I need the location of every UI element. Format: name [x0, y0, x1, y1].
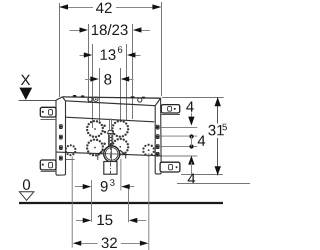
boss line under small ring [66, 159, 75, 161]
drain circle [98, 144, 126, 165]
dimension 4 dots middle right [189, 134, 205, 148]
bracket left upper [40, 107, 56, 119]
bracket right upper [161, 105, 180, 115]
level marker X [19, 75, 56, 101]
right chain: top line [162, 97, 224, 99]
fixing hole ring lower-left [86, 138, 104, 156]
dimension 9 sup 3 [75, 179, 134, 191]
fixing hole ring lower-mid [111, 138, 129, 156]
rail top face screws [73, 95, 145, 102]
left column holes [59, 125, 62, 160]
right column tick lines [162, 128, 198, 156]
frame rail top edges [56, 97, 161, 122]
bracket left lower [40, 160, 56, 172]
dimension 42 [59, 2, 162, 97]
dimension 32 [73, 238, 149, 249]
floor line [19, 202, 223, 204]
bottom extension lines [72, 153, 149, 250]
left column [56, 97, 66, 175]
drain bolt [107, 119, 113, 147]
dimension 4 lower right [177, 156, 250, 184]
dimension 4 top right [186, 102, 194, 126]
panel bottom edge [56, 152, 161, 156]
small fixing ring left of panel [65, 144, 77, 156]
dimension 18/23 [70, 24, 151, 119]
level marker 0 [19, 179, 33, 200]
dimension 8 [85, 68, 134, 122]
fixing hole ring upper-left [86, 120, 104, 138]
right column holes [156, 125, 159, 156]
fixing hole ring right [142, 144, 155, 157]
dimension 15 [76, 215, 146, 225]
bracket right lower [160, 162, 180, 172]
drain pipe [104, 146, 117, 176]
dimension 13 sup 6 [80, 44, 141, 128]
dimension 31 sup 5 [208, 97, 227, 175]
right column [155, 98, 161, 174]
stray plate holes [103, 125, 106, 152]
fixing hole ring upper-mid [111, 120, 129, 138]
